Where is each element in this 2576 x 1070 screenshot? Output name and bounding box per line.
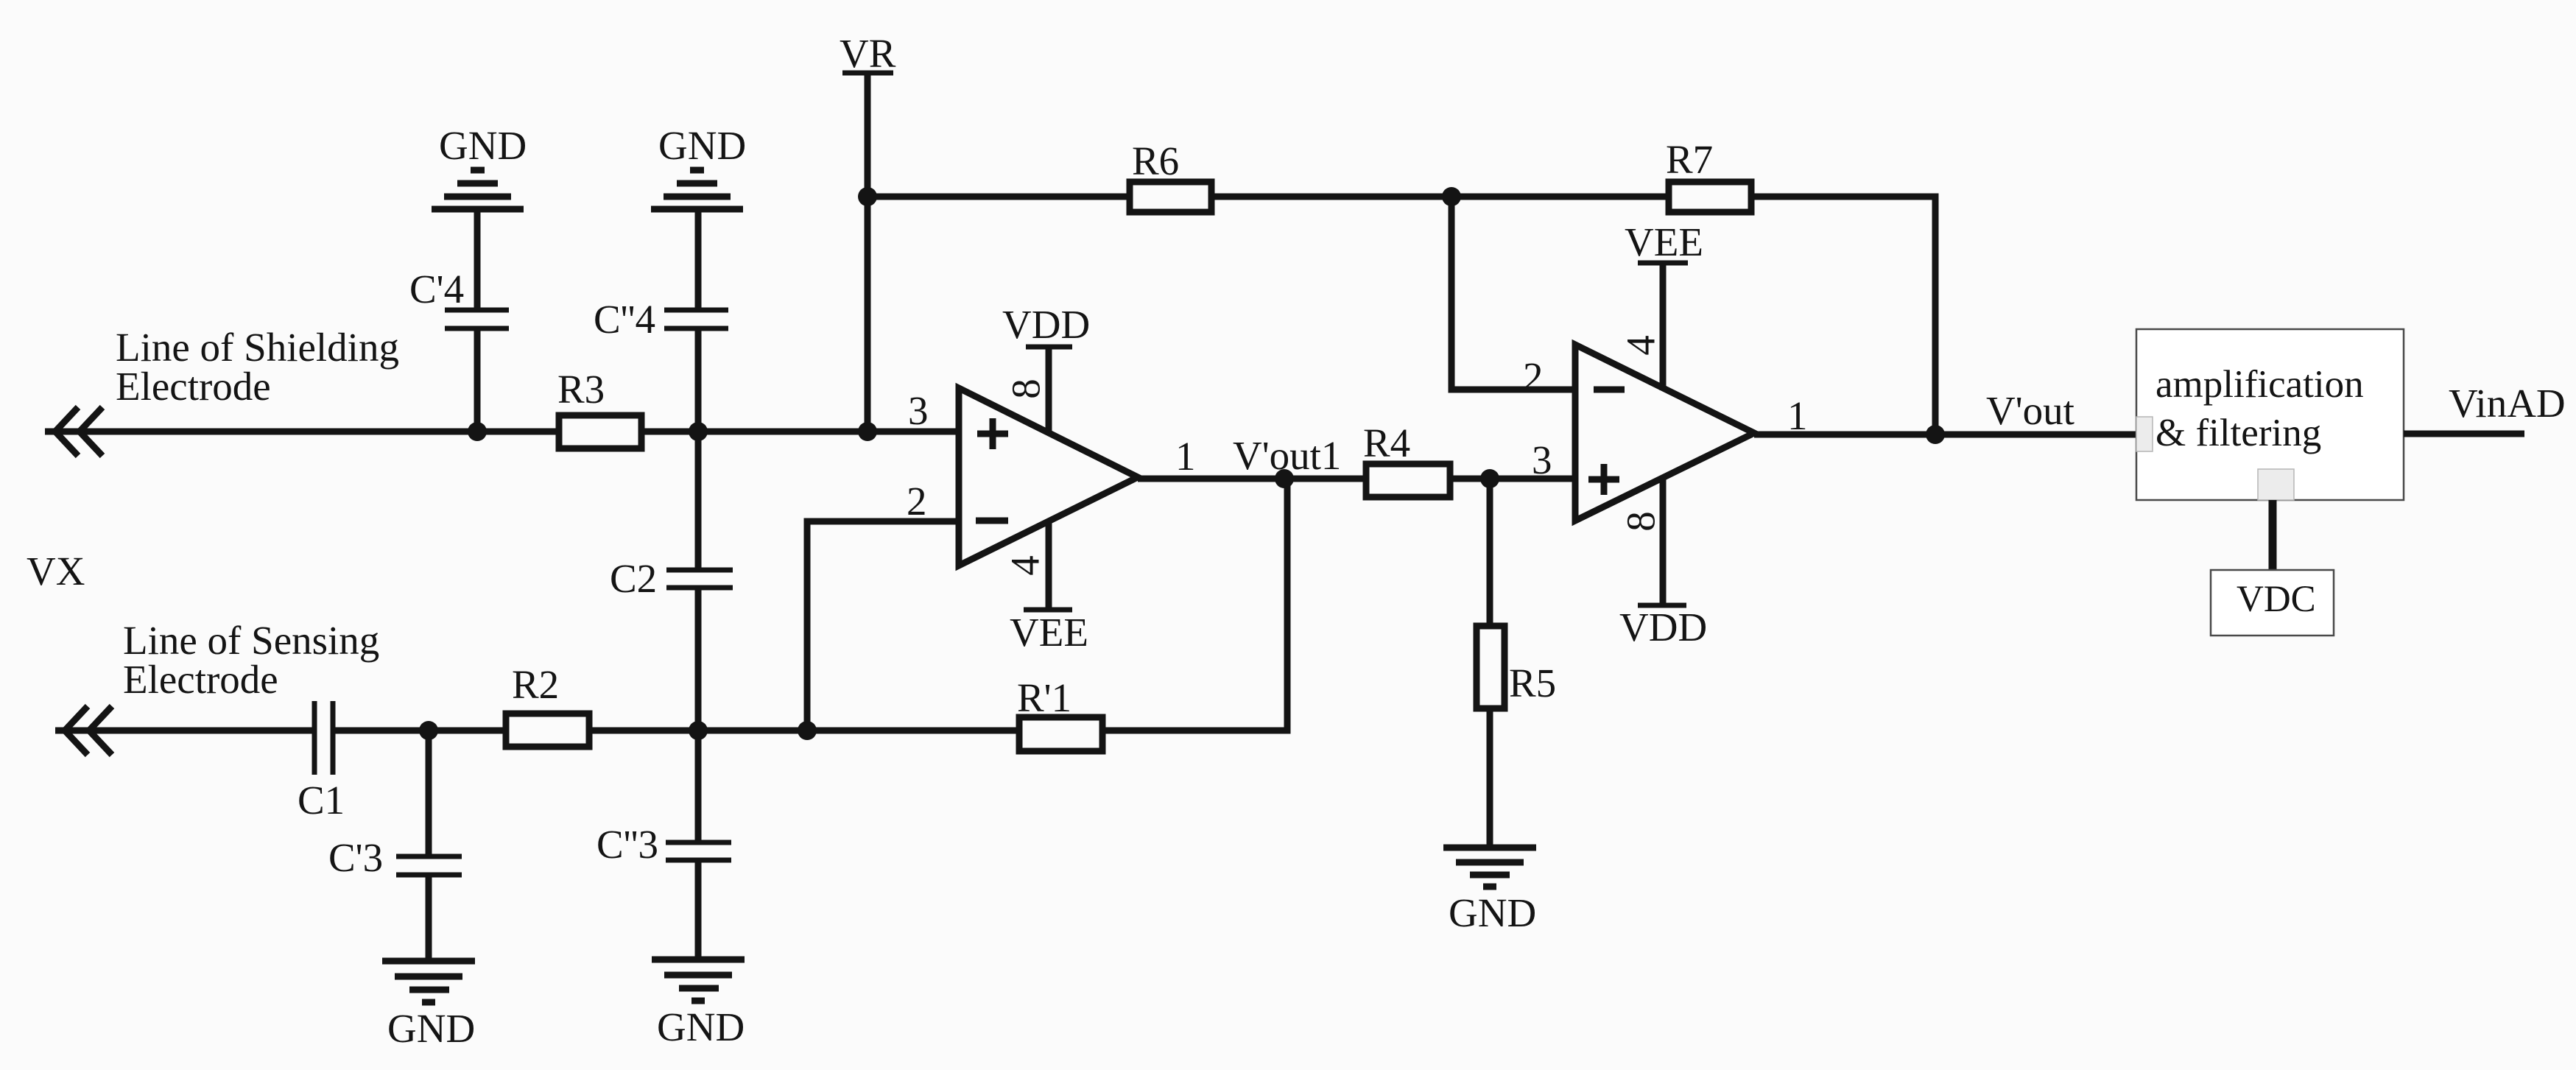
svg-text:GND: GND bbox=[657, 1004, 745, 1049]
op-amp U1 minus symbol bbox=[976, 518, 1008, 524]
svg-text:GND: GND bbox=[387, 1006, 475, 1051]
capacitor C'4 bbox=[445, 308, 509, 313]
node: R4 / R5 / pin 3 junction bbox=[1480, 469, 1499, 488]
wire: amplification box to VDC bbox=[2269, 500, 2277, 572]
wire: C2 down to sensing node bbox=[695, 588, 702, 731]
arrow chevron 2 (sensing line left end) bbox=[89, 706, 112, 755]
wire: C''3 to GND bbox=[695, 860, 702, 960]
resistor R4 bbox=[1366, 464, 1450, 497]
wire: R6 feedback line bbox=[868, 194, 1130, 200]
node V'out1 bbox=[1275, 469, 1294, 488]
svg-text:C'3: C'3 bbox=[328, 835, 383, 880]
wire: sensing electrode line (left of C1) bbox=[55, 728, 314, 734]
svg-text:C''4: C''4 bbox=[594, 297, 655, 342]
svg-text:GND: GND bbox=[1449, 890, 1536, 935]
svg-text:VDD: VDD bbox=[1619, 605, 1707, 650]
svg-text:Electrode: Electrode bbox=[116, 364, 271, 409]
power symbol VDD (U2) bbox=[1638, 603, 1686, 608]
wire: junction up to U1 pin 2 bbox=[807, 521, 959, 731]
wire: C1 to R2 bbox=[333, 728, 506, 734]
wire: U2 output to amplification box bbox=[1754, 432, 2152, 438]
svg-text:VDC: VDC bbox=[2237, 579, 2316, 620]
svg-text:R2: R2 bbox=[512, 662, 559, 707]
node: C'4 junction on shielding line bbox=[468, 422, 487, 441]
wire: U1 pin 8 to VDD bbox=[1046, 347, 1052, 434]
svg-text:GND: GND bbox=[658, 123, 746, 168]
svg-text:R3: R3 bbox=[557, 367, 605, 412]
node: junction to op-amp U2 pin 2 bbox=[1442, 187, 1461, 206]
port tab (bottom, VDC) bbox=[2258, 469, 2294, 500]
wire: amplification box to VinAD bbox=[2404, 431, 2524, 437]
svg-text:8: 8 bbox=[1619, 511, 1664, 532]
resistor R5 (vertical) bbox=[1477, 626, 1505, 708]
wire: R5 to GND bbox=[1487, 708, 1493, 848]
svg-text:VEE: VEE bbox=[1010, 610, 1088, 655]
svg-text:R7: R7 bbox=[1666, 137, 1713, 182]
svg-text:R5: R5 bbox=[1509, 661, 1556, 705]
wire: U2 pin 8 to VDD bbox=[1660, 476, 1667, 605]
wire: shielding electrode line bbox=[45, 429, 959, 435]
wire: GND to C'4 bbox=[474, 209, 481, 310]
ground GND (below C''3) bbox=[652, 957, 745, 963]
capacitor C''3 bbox=[666, 840, 731, 845]
svg-text:VinAD: VinAD bbox=[2449, 381, 2566, 426]
port tab (left, V'out input) bbox=[2136, 417, 2153, 451]
wire: junction down to C'3 bbox=[426, 731, 432, 856]
svg-text:Line of Sensing: Line of Sensing bbox=[123, 618, 379, 663]
capacitor C1 (series, vertical plates) bbox=[312, 701, 317, 775]
arrow chevron 2 (shielding line left end) bbox=[80, 407, 102, 456]
wire: V'out1 down to R'1 line bbox=[1102, 479, 1287, 731]
node: VR junction on shielding line bbox=[858, 422, 877, 441]
wire: shielding node down to C2 bbox=[695, 432, 702, 570]
svg-text:C2: C2 bbox=[610, 556, 657, 601]
wire: R2 to R'1 line bbox=[589, 728, 1019, 734]
node: C2/C''3 junction on sensing line bbox=[689, 721, 708, 740]
svg-text:R4: R4 bbox=[1363, 420, 1410, 465]
ground GND (below C'3) bbox=[382, 958, 475, 965]
wire: R4 to U2 pin 3 bbox=[1450, 476, 1575, 482]
svg-text:4: 4 bbox=[1619, 335, 1664, 356]
op-amp U2 plus symbol bbox=[1588, 464, 1619, 495]
op-amp U2 minus symbol bbox=[1594, 387, 1625, 393]
svg-text:VEE: VEE bbox=[1625, 219, 1703, 264]
node: VR junction on R6 line bbox=[858, 187, 877, 206]
ground GND (below R5) bbox=[1443, 845, 1536, 851]
wire: U2 pin 4 to VEE bbox=[1660, 263, 1667, 390]
resistor R2 bbox=[506, 714, 589, 747]
wire: U2 pin 2 from R6/R7 junction bbox=[1451, 197, 1575, 390]
svg-text:2: 2 bbox=[907, 479, 927, 524]
svg-text:C''3: C''3 bbox=[597, 822, 658, 867]
wire: R6 to R7 bbox=[1211, 194, 1669, 200]
power symbol VEE (U1) bbox=[1024, 608, 1072, 613]
svg-text:V'out1: V'out1 bbox=[1233, 433, 1341, 478]
op-amp U1 plus symbol bbox=[977, 418, 1008, 449]
node: C''4/C2 junction on shielding line bbox=[689, 422, 708, 441]
wire: C''4 to shielding line bbox=[695, 328, 702, 432]
wire: R7 to output node bbox=[1751, 197, 1935, 434]
wire: U1 output to R4 bbox=[1138, 476, 1366, 482]
svg-text:VR: VR bbox=[840, 31, 896, 76]
svg-text:Line of Shielding: Line of Shielding bbox=[116, 325, 399, 370]
block: amplification & filtering bbox=[2136, 329, 2404, 500]
op-amp U2 triangle bbox=[1575, 345, 1754, 521]
svg-text:3: 3 bbox=[908, 388, 929, 433]
wire: C'3 to GND bbox=[426, 875, 432, 961]
wire: junction down to R5 bbox=[1487, 479, 1493, 627]
resistor R3 bbox=[559, 415, 641, 448]
resistor R7 bbox=[1669, 182, 1751, 212]
svg-text:R6: R6 bbox=[1132, 138, 1179, 183]
wire: VR vertical bbox=[865, 73, 871, 432]
wire: GND to C''4 bbox=[695, 209, 702, 310]
svg-text:VDD: VDD bbox=[1002, 302, 1090, 347]
svg-text:amplification: amplification bbox=[2156, 363, 2364, 406]
svg-text:R'1: R'1 bbox=[1017, 675, 1071, 720]
node: C'3 junction on sensing line bbox=[419, 721, 438, 740]
arrow chevron 1 (shielding line left end) bbox=[55, 407, 78, 456]
svg-text:VX: VX bbox=[27, 549, 85, 594]
block: VDC bbox=[2211, 570, 2334, 636]
svg-text:1: 1 bbox=[1787, 393, 1808, 438]
capacitor C2 (between shielding node and sensing node) bbox=[666, 568, 733, 573]
svg-text:C1: C1 bbox=[298, 778, 345, 823]
svg-text:Electrode: Electrode bbox=[123, 657, 278, 702]
wire: C'4 to shielding line bbox=[474, 328, 481, 432]
arrow chevron 1 (sensing line left end) bbox=[65, 706, 88, 755]
svg-text:1: 1 bbox=[1175, 434, 1196, 479]
svg-text:V'out: V'out bbox=[1986, 388, 2074, 433]
wire: U1 pin 4 to VEE bbox=[1046, 520, 1052, 610]
node V'out bbox=[1926, 425, 1945, 444]
svg-text:2: 2 bbox=[1523, 354, 1544, 399]
capacitor C''4 bbox=[664, 308, 728, 313]
svg-text:GND: GND bbox=[439, 123, 527, 168]
svg-text:4: 4 bbox=[1003, 555, 1048, 576]
wire: junction down to C''3 bbox=[695, 731, 702, 842]
svg-text:8: 8 bbox=[1004, 379, 1049, 399]
resistor R6 bbox=[1130, 182, 1211, 212]
resistor R'1 bbox=[1019, 717, 1102, 751]
svg-text:C'4: C'4 bbox=[409, 267, 464, 312]
svg-text:& filtering: & filtering bbox=[2156, 412, 2321, 454]
capacitor C'3 bbox=[396, 854, 462, 859]
node: pin 2 feedback junction on sensing line bbox=[798, 721, 817, 740]
op-amp U1 triangle bbox=[959, 388, 1138, 566]
svg-text:3: 3 bbox=[1532, 437, 1552, 482]
